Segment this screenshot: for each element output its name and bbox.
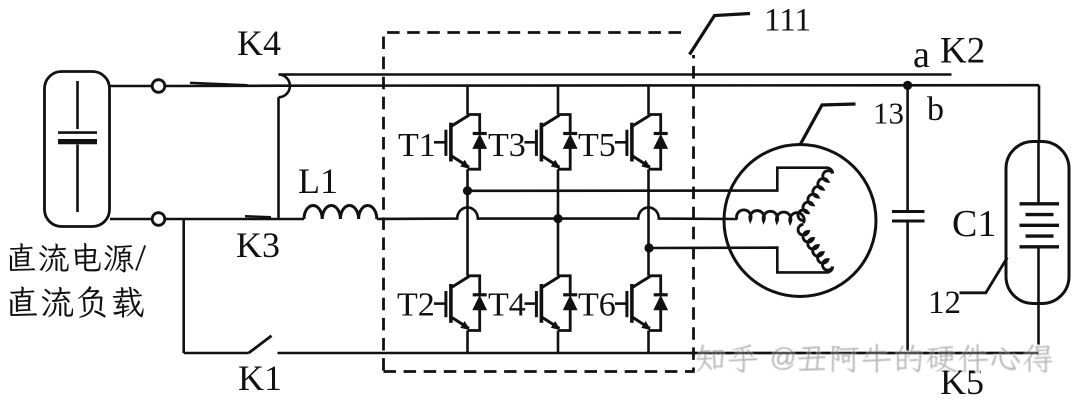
leg 1 lower wire — [466, 331, 469, 354]
upper rail wire to point a — [279, 73, 952, 76]
battery C1 bottom lead — [1037, 249, 1040, 354]
transistor T2 — [434, 276, 487, 331]
transistor T6 — [615, 276, 668, 331]
svg-text:T1: T1 — [398, 127, 436, 164]
svg-text:K1: K1 — [238, 358, 282, 398]
phase line C from leg3 to motor, with step — [649, 248, 833, 273]
wire from bottom terminal to L1 (K3 path) — [165, 218, 304, 221]
svg-text:T3: T3 — [488, 127, 526, 164]
motor winding top (phase A coil) — [798, 171, 833, 221]
svg-text:a: a — [913, 34, 930, 76]
lower bus wire (positive rail) — [165, 84, 1039, 87]
inductor L1 — [304, 205, 377, 219]
filter capacitor branch upper wire — [906, 85, 909, 211]
leg 1 middle wire — [466, 169, 469, 276]
transistor T1 — [434, 115, 487, 170]
terminal circle top — [152, 80, 165, 93]
switch K1 blade — [249, 336, 272, 353]
bottom rail left segment — [184, 352, 249, 355]
transistor T4 — [525, 276, 578, 331]
motor winding middle (phase B coil) — [737, 210, 805, 223]
svg-text:T6: T6 — [578, 287, 616, 324]
svg-text:b: b — [927, 91, 944, 128]
phase line B from L1 with hops over legs 1 and 3, to motor winding — [377, 207, 737, 219]
leg 3 middle wire — [647, 169, 650, 276]
svg-text:C1: C1 — [952, 203, 996, 245]
svg-text:T5: T5 — [578, 127, 616, 164]
filter capacitor branch lower wire — [906, 221, 909, 353]
switch K4 blade — [190, 83, 248, 85]
label DC source/DC load (Chinese) — [9, 243, 146, 273]
leg 3 upper wire — [647, 86, 650, 115]
wire vertical from K3/L1 junction up — [277, 97, 280, 219]
switch K3 blade — [245, 216, 271, 217]
leg 1 upper wire — [466, 86, 469, 115]
pointer line to 13 — [801, 104, 856, 144]
battery C1 plates — [1020, 204, 1060, 247]
svg-text:K4: K4 — [237, 23, 281, 63]
filter capacitor plates — [892, 212, 925, 222]
DC source box — [45, 72, 110, 227]
svg-text:12: 12 — [928, 285, 961, 321]
wire hop over lower bus — [279, 75, 290, 98]
bottom rail main segment — [278, 352, 1039, 355]
DC source capacitor symbol — [58, 81, 97, 212]
svg-text:K2: K2 — [940, 31, 985, 72]
junction dot leg1/line A — [463, 186, 472, 195]
phase line A from leg1 to motor, with step — [468, 168, 833, 191]
battery C1 pill outline — [1006, 142, 1069, 304]
junction dot leg2/line B — [553, 214, 562, 223]
svg-text:L1: L1 — [298, 161, 338, 201]
wire lower bus corner down to C1 — [1038, 85, 1041, 143]
leg 2 upper wire — [557, 86, 560, 115]
junction dot b on lower bus — [903, 81, 912, 90]
transistor T3 — [525, 115, 578, 170]
leg 2 middle wire — [557, 169, 560, 276]
svg-text:111: 111 — [764, 3, 811, 39]
leg 3 lower wire — [647, 331, 650, 354]
pointer line to 111 — [690, 14, 751, 55]
battery C1 top lead — [1037, 142, 1040, 204]
terminal circle bottom — [152, 213, 165, 226]
motor winding bottom (phase C coil) — [798, 224, 833, 270]
wire box to bottom terminal — [110, 218, 152, 221]
bottom rail segment over watermark — [690, 352, 1039, 355]
dashed box 111 (inverter) — [384, 33, 694, 372]
pointer line to 12 — [960, 258, 1008, 293]
junction dot leg3/line C — [644, 243, 653, 252]
wire branch down to K1 rail — [182, 219, 185, 353]
leg 2 lower wire — [557, 331, 560, 354]
svg-text:13: 13 — [873, 96, 904, 131]
transistor T5 — [615, 115, 668, 170]
wire box to top terminal — [110, 85, 152, 88]
motor circle 13 — [724, 145, 876, 297]
svg-text:K3: K3 — [236, 225, 280, 265]
svg-text:T4: T4 — [488, 287, 526, 324]
svg-text:T2: T2 — [397, 287, 435, 324]
watermark Zhihu — [0, 0, 1, 1]
